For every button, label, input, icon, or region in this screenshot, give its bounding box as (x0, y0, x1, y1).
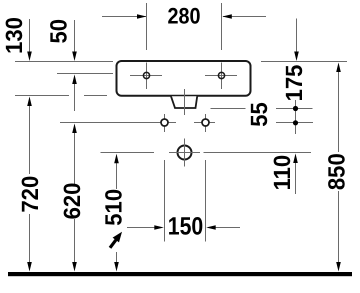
arrowhead 280 left (points right) (137, 14, 147, 19)
svg-text:130: 130 (1, 17, 27, 54)
wire: drain crosshair horizontal (169, 152, 200, 154)
svg-text:720: 720 (17, 176, 43, 213)
wire: 280 dim line right tail (223, 16, 266, 18)
svg-text:110: 110 (269, 155, 295, 191)
wire: 175 arrow shaft (296, 19, 298, 53)
wire: wall dot upper tick (276, 108, 313, 110)
arrowhead 50 at faucet line (72, 75, 77, 85)
wire: rim level line left (L1) (15, 61, 113, 63)
wire: drain level line right (204, 152, 312, 154)
arrowhead 150 right (206, 225, 216, 230)
wire: 150 dim left tail (127, 227, 155, 229)
svg-text:280: 280 (167, 4, 200, 29)
wire: basin bottom line left (L3a) (15, 95, 69, 97)
wire: 50 arrow shaft lower tail (74, 84, 76, 111)
svg-text:50: 50 (46, 19, 72, 44)
arrowhead 850 at rim line (336, 63, 341, 73)
wire: 50 arrow shaft upper (74, 20, 76, 52)
arrowhead 110 at drain line (293, 154, 298, 164)
wire: 280 extension line left (146, 3, 148, 50)
wire: trapezoid centerline (184, 89, 186, 115)
wire: 720 dim line lower (29, 214, 31, 262)
floor line (8, 272, 352, 276)
wire: 620 dim line lower (74, 219, 76, 262)
wire: 150 extension line right (205, 160, 207, 242)
arrowhead 620 at floor (72, 262, 77, 272)
faucet hole right crosshair (205, 63, 237, 90)
wire: drain crosshair vertical (184, 139, 186, 167)
svg-text:510: 510 (101, 189, 127, 226)
svg-text:175: 175 (281, 65, 307, 102)
wire: 510 dim line upper (116, 163, 118, 189)
wire: 510 dim line lower (116, 252, 118, 262)
wire: 110 arrow shaft (295, 163, 297, 194)
fixing hole right (202, 114, 209, 132)
wire: 850 dim line upper (338, 72, 340, 152)
arrowhead 720 at floor (27, 262, 32, 272)
wire: 280 extension line right (221, 3, 223, 50)
wire: drain level line left (101, 152, 155, 154)
faucet hole left crosshair (130, 63, 162, 90)
wire: 280 dim line left tail (102, 16, 146, 18)
arrowhead 50 at rim line (72, 52, 77, 62)
wire: basin bottom line left (L3b) (84, 95, 107, 97)
wire: vertical through wall dots (295, 100, 297, 134)
wall fixing dot upper (293, 106, 298, 111)
svg-text:850: 850 (324, 153, 350, 190)
arrowhead 510 at floor (114, 262, 119, 272)
wire: rim level line right (261, 61, 347, 63)
wire: wall dot lower tick (276, 122, 313, 124)
svg-text:150: 150 (168, 213, 203, 241)
wire: 130 arrow shaft (29, 19, 31, 52)
wire: 720 dim line upper (29, 106, 31, 174)
wall fixing dot lower (293, 120, 298, 125)
washbasin body outline (117, 61, 251, 96)
wire: 150 extension line left (164, 160, 166, 242)
arrowhead 280 right (points left) (222, 14, 232, 19)
arrowhead 175 at rim line (294, 52, 299, 62)
wire: fixing hole right tick (194, 122, 215, 124)
wire: 620 dim line upper (74, 133, 76, 184)
wire: 150 dim right tail (215, 227, 240, 229)
supply direction arrow (110, 232, 122, 248)
wire: 850 dim line lower (338, 191, 340, 262)
drain boss trapezoid (171, 96, 197, 108)
wire: faucet level line left (L2) (57, 73, 113, 75)
arrowhead 130 at rim line (27, 52, 32, 62)
arrowhead 850 at floor (336, 262, 341, 272)
arrowhead 150 left (154, 225, 164, 230)
arrowhead 720 at basin bottom line (27, 97, 32, 107)
wire: overflow level line to 55 (211, 108, 246, 110)
fixing hole left (161, 114, 168, 132)
arrowhead 510 at drain line (114, 154, 119, 164)
wire: fixing hole level line (L4) (60, 122, 176, 124)
drain hole circle (178, 146, 192, 160)
svg-text:55: 55 (246, 102, 272, 127)
arrowhead 620 at fixing hole line (72, 124, 77, 134)
svg-text:620: 620 (59, 183, 85, 220)
